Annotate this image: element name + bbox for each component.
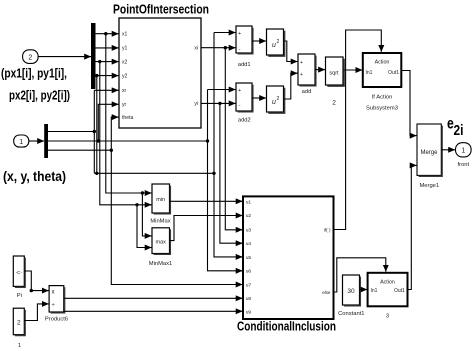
block Action3 If Action Subsystem bbox=[368, 273, 408, 307]
svg-text:add2: add2 bbox=[238, 118, 251, 124]
svg-text:front: front bbox=[457, 162, 469, 168]
outport oval 1 front bbox=[456, 143, 472, 157]
block If Action Subsystem3 bbox=[363, 53, 402, 87]
svg-text:-: - bbox=[239, 103, 241, 109]
label (px1[i], py1[i], px2[i], py2[i]) bbox=[1, 66, 70, 103]
wire mux1 to y2 bbox=[96, 75, 119, 77]
block u2b square bbox=[267, 86, 285, 113]
block Product6 bbox=[49, 286, 65, 313]
svg-text:u7: u7 bbox=[246, 282, 252, 288]
svg-text:u6: u6 bbox=[246, 269, 252, 275]
mux bar Mux1 bbox=[91, 23, 96, 89]
svg-text:px2[i], py2[i]): px2[i], py2[i]) bbox=[9, 88, 70, 103]
svg-text:30: 30 bbox=[347, 288, 355, 295]
svg-text:min: min bbox=[156, 197, 165, 203]
wire add2 out to u2b bbox=[252, 97, 266, 99]
svg-text:2i: 2i bbox=[454, 122, 464, 139]
svg-text:Product6: Product6 bbox=[45, 317, 68, 323]
subsystem ConditionalInclusion bbox=[243, 196, 334, 319]
wire yi branch down to u4 bbox=[220, 103, 243, 243]
svg-text:Merge: Merge bbox=[420, 150, 438, 156]
svg-text:MinMax1: MinMax1 bbox=[149, 261, 173, 267]
wire max out to u2 bbox=[170, 216, 243, 241]
svg-text:If Action: If Action bbox=[372, 95, 393, 101]
svg-text:+: + bbox=[238, 88, 241, 94]
svg-text:+: + bbox=[300, 72, 303, 78]
block u2a square bbox=[267, 29, 285, 56]
wire Product6 out to u8 bbox=[64, 297, 243, 299]
wire mux1 to x2 bbox=[96, 61, 119, 63]
svg-text:+: + bbox=[238, 31, 241, 37]
wire Product6 lower line to u9 bbox=[64, 310, 243, 312]
wire mux1 to y1 bbox=[96, 47, 119, 49]
block Constant1 30 bbox=[343, 275, 361, 306]
subsystem PointOfIntersection bbox=[119, 18, 201, 128]
svg-text:MinMax: MinMax bbox=[150, 219, 170, 225]
svg-text:sqrt: sqrt bbox=[329, 71, 339, 77]
svg-text:2: 2 bbox=[17, 320, 21, 327]
inport oval 1 bbox=[14, 135, 29, 147]
svg-text:2: 2 bbox=[277, 39, 280, 45]
svg-text:xi: xi bbox=[194, 46, 198, 52]
svg-text:2: 2 bbox=[332, 100, 336, 107]
svg-text:yi: yi bbox=[194, 101, 198, 107]
label If Action Subsystem3 bbox=[366, 95, 398, 112]
wire u2b out to add in2 bbox=[284, 73, 297, 99]
inport oval 2 bbox=[23, 50, 38, 64]
svg-text:theta: theta bbox=[122, 115, 133, 121]
wire add1 out to u2a bbox=[252, 40, 266, 42]
wire demux2 y out to yr and right bbox=[48, 104, 208, 141]
svg-text:x: x bbox=[52, 290, 55, 296]
wire Pi to Product6 in1 bbox=[24, 271, 48, 291]
block sqrt bbox=[326, 57, 345, 86]
svg-text:u: u bbox=[272, 42, 276, 49]
svg-text:x2: x2 bbox=[122, 59, 128, 65]
svg-text:y1: y1 bbox=[122, 46, 128, 52]
wire if() to Action port bbox=[334, 30, 382, 230]
wire Constant1 to Action3 In1 bbox=[360, 289, 367, 291]
block MinMax1 max bbox=[152, 228, 170, 255]
block constant 2 bbox=[13, 308, 25, 335]
svg-text:Out1: Out1 bbox=[388, 70, 399, 76]
block Merge bbox=[417, 124, 442, 176]
svg-text:1: 1 bbox=[18, 343, 21, 349]
svg-text:(px1[i], py1[i],: (px1[i], py1[i], bbox=[1, 66, 67, 81]
wire xi branch down to u3 bbox=[225, 48, 242, 230]
block add2 bbox=[236, 83, 253, 112]
svg-text:-: - bbox=[239, 47, 241, 53]
wire u2a out to add in1 bbox=[284, 41, 297, 62]
svg-text:u4: u4 bbox=[246, 241, 252, 247]
svg-text:u9: u9 bbox=[246, 310, 252, 316]
svg-text:(x, y, theta): (x, y, theta) bbox=[3, 169, 66, 184]
wire xi to add1 in2 bbox=[201, 47, 236, 49]
svg-text:add1: add1 bbox=[238, 62, 251, 68]
wire add out to sqrt bbox=[315, 69, 325, 71]
svg-text:add: add bbox=[302, 89, 312, 95]
svg-text:u2: u2 bbox=[246, 213, 252, 219]
svg-text:1: 1 bbox=[19, 139, 23, 146]
svg-text:Out1: Out1 bbox=[394, 288, 405, 294]
svg-text:Merge1: Merge1 bbox=[419, 183, 439, 189]
wire mux1 to x1 bbox=[96, 33, 119, 35]
svg-text:u5: u5 bbox=[246, 255, 252, 261]
svg-text:else: else bbox=[322, 290, 331, 295]
svg-text:Action: Action bbox=[375, 60, 390, 66]
svg-text:+: + bbox=[300, 60, 303, 66]
svg-text:Subsystem3: Subsystem3 bbox=[366, 106, 398, 112]
svg-text:Constant1: Constant1 bbox=[338, 311, 364, 317]
svg-text:3: 3 bbox=[386, 314, 389, 320]
wire oval2 to mux1 bbox=[38, 56, 91, 58]
wire If Action Out1 to Merge in1 bbox=[402, 71, 417, 136]
svg-text:In1: In1 bbox=[366, 70, 373, 76]
wire else to Action3 top port bbox=[334, 258, 386, 292]
svg-text:Action: Action bbox=[380, 280, 395, 286]
svg-text:1: 1 bbox=[461, 148, 465, 155]
wire yi to add2 in2 bbox=[201, 102, 236, 104]
wire sqrt out to If Action In1 bbox=[344, 69, 363, 71]
svg-text:In1: In1 bbox=[371, 288, 378, 294]
label e2i bbox=[447, 116, 464, 140]
wire demux2 x out to xr and down bbox=[48, 90, 214, 173]
wire demux2 theta out to theta port and down to u7 bbox=[48, 117, 243, 284]
wire min out to u1 bbox=[170, 200, 243, 202]
svg-text:if( ): if( ) bbox=[324, 228, 331, 233]
svg-text:x1: x1 bbox=[122, 32, 128, 38]
wire y vertical to add2 in1 and u6 bbox=[208, 90, 243, 271]
block add1 bbox=[236, 26, 253, 54]
svg-text:-C-: -C- bbox=[16, 270, 23, 275]
wire x vertical to add1 in1 and u5 bbox=[214, 33, 243, 257]
demux bar Demux2 bbox=[44, 124, 48, 158]
wire Action3 Out1 to Merge in2 bbox=[408, 165, 417, 289]
wire Merge out to outport bbox=[442, 149, 455, 151]
svg-text:xr: xr bbox=[122, 88, 127, 94]
svg-text:u8: u8 bbox=[246, 296, 252, 302]
svg-text:yr: yr bbox=[122, 102, 127, 108]
wire x1 branch to min in1 and max in1 bbox=[106, 34, 152, 236]
svg-text:2: 2 bbox=[277, 96, 280, 102]
wire x2 branch to min in2 and max in2 bbox=[100, 62, 152, 248]
svg-text:max: max bbox=[156, 240, 167, 246]
wire y2 branch down bbox=[96, 76, 98, 174]
svg-text:2: 2 bbox=[28, 54, 32, 61]
svg-text:u: u bbox=[272, 99, 276, 106]
block MinMax min bbox=[152, 184, 170, 214]
svg-text:u1: u1 bbox=[246, 199, 252, 205]
wire oval1 to demux2 bbox=[29, 140, 44, 142]
svg-text:u3: u3 bbox=[246, 228, 252, 234]
block Pi constant bbox=[13, 256, 25, 287]
svg-text:y2: y2 bbox=[122, 73, 128, 79]
svg-text:Pi: Pi bbox=[17, 293, 22, 299]
wire constant2 to Product6 in2 bbox=[24, 304, 48, 321]
svg-text:ConditionalInclusion: ConditionalInclusion bbox=[237, 319, 336, 334]
svg-text:PointOfIntersection: PointOfIntersection bbox=[113, 2, 209, 17]
block add bbox=[298, 54, 316, 86]
